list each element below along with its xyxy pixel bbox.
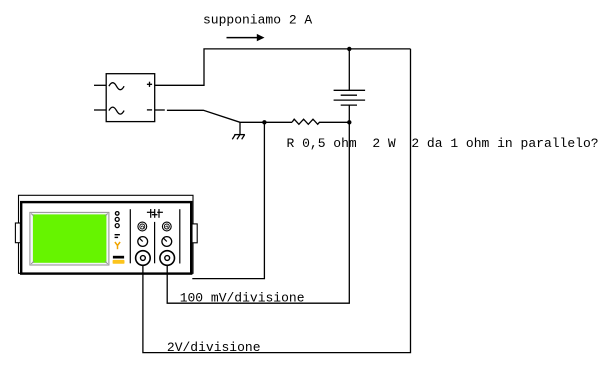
knob B1 (concentric) (162, 222, 171, 231)
panel orange bar (113, 260, 125, 264)
panel button circle 3 (115, 224, 119, 228)
AC source sine wave 1 (109, 83, 124, 90)
resistor R1 zigzag (292, 119, 349, 124)
oscilloscope right handle tab (192, 224, 197, 243)
knob A1 (concentric) (138, 222, 147, 231)
wire minus diagonal segment (167, 110, 292, 122)
current arrow (227, 34, 265, 41)
oscilloscope main case (21, 202, 191, 274)
battery B1 bottom lead (348, 105, 350, 122)
svg-text:R 0,5 ohm 2 W 2 da 1 ohm in: R 0,5 ohm 2 W 2 da 1 ohm in parallelo? (287, 136, 599, 151)
ground lead (239, 122, 241, 134)
oscilloscope green screen (33, 214, 107, 262)
node junction dot top (347, 47, 351, 51)
panel divider line 3 (179, 209, 181, 263)
battery B1 top lead (348, 49, 350, 90)
panel trimmer icon (three crosses) (147, 209, 163, 218)
panel divider line 1 (129, 209, 131, 263)
input stub wire top left (94, 84, 106, 86)
panel equals mark (115, 235, 120, 238)
oscilloscope outer back panel (19, 195, 194, 273)
wire from minus terminal stub (155, 109, 165, 111)
wire from plus terminal up and across top (155, 49, 411, 85)
battery B1 plates (334, 90, 366, 105)
oscilloscope screen bezel (30, 212, 109, 265)
svg-text:supponiamo 2 A: supponiamo 2 A (203, 13, 312, 28)
panel button circle 2 (115, 217, 119, 221)
oscilloscope left handle tab (15, 223, 20, 243)
panel divider line 2 (154, 222, 156, 263)
panel button circle 1 (115, 212, 119, 216)
node junction dot 1 (262, 120, 266, 124)
wire from node 1 down to scope chassis (192, 122, 264, 278)
wire from node 2 down to BNC B (100mV/div) (167, 122, 349, 303)
right loop wire to BNC A (2V/div) (143, 49, 411, 353)
AC source sine wave 2 (109, 107, 124, 114)
AC source box U1 (106, 74, 155, 122)
AC source minus terminal mark (147, 109, 152, 111)
panel black bar (113, 256, 124, 259)
knob A2 (pointer) (138, 237, 148, 247)
BNC connector A (136, 251, 151, 266)
input stub wire bottom left (94, 109, 106, 111)
node junction dot 2 (347, 120, 351, 124)
ground symbol (232, 135, 245, 140)
panel Y label (orange) (115, 242, 120, 249)
AC source plus terminal mark (147, 82, 152, 87)
knob B2 (pointer) (162, 237, 172, 247)
BNC connector B (160, 251, 175, 266)
screen corner bevel marks (31, 214, 108, 264)
